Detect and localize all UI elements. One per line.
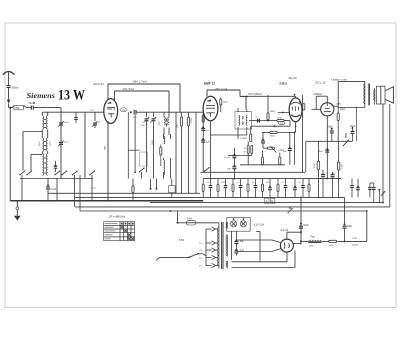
- svg-text:57W: 57W: [179, 239, 185, 242]
- svg-text:50µF: 50µF: [350, 126, 356, 128]
- coil L1a: [42, 116, 43, 129]
- svg-text:Lautspr. in mA: Lautspr. in mA: [332, 78, 348, 81]
- tube ECH11 U1: [104, 99, 118, 124]
- label ECH 11: [94, 82, 105, 86]
- label tap3: [199, 258, 202, 260]
- transformer T4 sec heater1: [226, 222, 228, 228]
- resistor R16 NTC: [317, 141, 320, 197]
- resistor R13: [202, 116, 204, 123]
- resistor R1 5000: [180, 112, 182, 193]
- svg-text:A Z 11: A Z 11: [279, 228, 289, 232]
- tube EM11 U3: [289, 98, 302, 122]
- potentiometer P2: [381, 191, 385, 196]
- svg-text:0,1: 0,1: [282, 182, 285, 184]
- wire plate U4: [334, 81, 365, 107]
- wire: [338, 107, 365, 142]
- wire: [134, 114, 136, 172]
- component row item 11: [284, 179, 288, 198]
- component row item 4: [232, 179, 234, 198]
- component row item 10: [277, 179, 279, 198]
- wire: [137, 111, 204, 113]
- wire speaker drop2: [389, 104, 391, 207]
- component row item 14: [308, 179, 310, 198]
- speaker LS1: [376, 86, 393, 104]
- capacitor C22: [321, 170, 325, 197]
- svg-text:100cm: 100cm: [11, 87, 18, 90]
- trimmer C3: [58, 121, 64, 127]
- svg-text:0,1MΩ: 0,1MΩ: [240, 138, 247, 140]
- wire: [306, 141, 353, 172]
- wire bus 172: [201, 171, 306, 173]
- coil L2a: [42, 138, 43, 151]
- wire: [79, 175, 81, 211]
- capacitor C5: [54, 161, 58, 172]
- wire: [231, 231, 233, 260]
- wire lamp return: [250, 224, 260, 262]
- capacitor C23: [331, 172, 335, 197]
- wire: [21, 175, 23, 201]
- label 1300: [313, 93, 322, 96]
- tube U2 internals: [206, 100, 215, 117]
- svg-text:2M: 2M: [252, 182, 255, 184]
- IF alignment table: [104, 222, 135, 241]
- label 240V: [340, 109, 346, 111]
- coil L2b: [46, 138, 47, 151]
- wire: [237, 108, 239, 139]
- title 13 W: [58, 88, 85, 104]
- svg-text:0,1: 0,1: [237, 182, 240, 184]
- terminal box E: [271, 198, 275, 203]
- svg-text:220: 220: [199, 266, 202, 268]
- antenna: [3, 72, 15, 86]
- capacitor C25: [372, 183, 376, 203]
- label row3: [237, 182, 240, 184]
- resistor R7 6340: [270, 131, 277, 137]
- tube U3 internals: [291, 101, 301, 117]
- resistor R18: [321, 240, 336, 247]
- label 57W: [179, 239, 185, 242]
- potentiometer P1 0.5M: [263, 146, 284, 152]
- resistor R11: [261, 150, 263, 164]
- svg-text:Fsp.: Fsp.: [311, 236, 316, 239]
- svg-text:5µF: 5µF: [227, 169, 231, 171]
- svg-text:20mA: 20mA: [352, 244, 358, 247]
- wire cathode U4: [326, 116, 328, 179]
- label row4: [252, 182, 255, 184]
- transformer T4 primary: [217, 228, 219, 269]
- transformer T4 sec heater2: [226, 261, 228, 269]
- transformer T4 sec HT: [226, 235, 228, 257]
- capacitor C-ant 100cm: [7, 86, 19, 90]
- coil T2 secondary: [246, 115, 247, 125]
- wire bus AVC: [48, 192, 200, 194]
- resistor R14: [303, 104, 305, 111]
- resistor R9: [247, 142, 249, 154]
- capacitor C2 50cm: [29, 102, 35, 110]
- label 2000 coil: [39, 141, 41, 146]
- mains hook: [157, 258, 160, 261]
- resistor R8 0.1M: [240, 126, 252, 141]
- wire screen loop U2: [207, 90, 246, 110]
- capacitor C16: [201, 126, 210, 132]
- label 12V 8mA: [123, 87, 135, 91]
- switch S1e: [72, 170, 78, 175]
- label 10cm trim2: [64, 142, 69, 144]
- svg-text:(1300Ω): (1300Ω): [313, 93, 322, 96]
- svg-text:8µF: 8µF: [240, 241, 245, 243]
- trimmer C4: [58, 141, 64, 147]
- wire: [20, 178, 93, 180]
- component row item 1: [209, 179, 213, 198]
- IF transformer T2 box: [235, 112, 252, 129]
- svg-text:ECH 11: ECH 11: [94, 82, 105, 86]
- wire screen loop inner: [114, 91, 169, 112]
- label ZF: [108, 215, 126, 219]
- label 3-30: [141, 125, 146, 127]
- wire column x302: [302, 95, 304, 173]
- trimmer C11: [150, 112, 156, 178]
- wire: [248, 154, 252, 165]
- wire: [56, 179, 58, 201]
- coil T2 primary: [238, 115, 239, 125]
- wire: [246, 110, 248, 113]
- svg-text:150: 150: [199, 258, 202, 260]
- arrow down: [7, 100, 11, 108]
- switch S5 mains: [160, 253, 206, 258]
- label tap1: [199, 243, 202, 245]
- wire osc extra v: [128, 112, 139, 178]
- svg-text:50µF: 50µF: [347, 226, 353, 228]
- svg-text:0,2M: 0,2M: [342, 164, 344, 169]
- transformer T3 core: [368, 84, 370, 106]
- coil T2 core: [242, 116, 244, 125]
- wire cathode U1: [107, 121, 109, 201]
- node: [47, 200, 49, 202]
- node: [130, 111, 132, 113]
- label 1700: [352, 238, 358, 246]
- label 180mA: [105, 145, 107, 150]
- wire HT to rect bottom: [236, 249, 281, 252]
- resistor R10: [244, 146, 253, 154]
- label 5000: [152, 139, 154, 144]
- wire: [42, 130, 47, 154]
- node pair: [150, 179, 158, 190]
- resistor R17: [337, 141, 340, 197]
- terminal box: [169, 179, 176, 198]
- lamp LA1: [231, 218, 237, 227]
- wire: [211, 130, 247, 135]
- label row1: [207, 182, 210, 184]
- resistor R6 1500: [277, 117, 290, 121]
- coil L3b: [46, 154, 47, 176]
- label R16: [314, 163, 316, 168]
- svg-text:0,1µF: 0,1µF: [51, 189, 58, 191]
- wire: [364, 81, 366, 107]
- label R2 1M: [191, 117, 193, 123]
- wire: [26, 107, 31, 109]
- label tap2: [199, 250, 202, 252]
- wire grid bus: [42, 111, 104, 113]
- tube U5 internals: [284, 242, 289, 248]
- fuse F1 0.8A: [178, 217, 196, 225]
- capacitor C17: [201, 138, 210, 144]
- wire: [8, 88, 10, 100]
- wire HT to rect top: [236, 240, 281, 243]
- svg-text:A: A: [266, 199, 268, 203]
- wire bus B2: [150, 202, 383, 204]
- tube AZ11 U5: [280, 239, 293, 252]
- wire: [74, 175, 76, 207]
- wire: [374, 88, 376, 105]
- switch S2: [139, 152, 148, 179]
- resistor R3: [132, 179, 134, 201]
- svg-text:1700: 1700: [352, 238, 358, 240]
- svg-text:6,3V 0,3A: 6,3V 0,3A: [254, 224, 265, 227]
- label 50u: [289, 78, 298, 80]
- capacitor C15: [227, 158, 236, 179]
- label R17b: [342, 164, 344, 169]
- trimmer C6: [92, 112, 98, 128]
- svg-text:TW: TW: [15, 106, 20, 110]
- resistor R5 3M: [267, 95, 275, 120]
- component row item 5: [239, 179, 243, 198]
- wire EM11 cathode drop: [295, 122, 297, 133]
- label 600m: [91, 188, 96, 190]
- capacitor C27 8uF: [234, 244, 244, 256]
- wire: [264, 120, 278, 122]
- switch S3: [204, 167, 210, 172]
- coil L4 osc b: [168, 112, 169, 135]
- component row item 3: [224, 179, 228, 198]
- capacitor C18 3uF: [283, 132, 292, 164]
- svg-text:50µ·4W: 50µ·4W: [289, 78, 298, 80]
- svg-text:180°: 180°: [105, 145, 107, 150]
- dial lamp box: [227, 218, 250, 232]
- wire EBF cathode: [210, 121, 212, 179]
- label trim3: [98, 122, 101, 124]
- wire plate loop outer: [108, 84, 180, 112]
- wire: [163, 172, 165, 179]
- label lautspr: [332, 78, 348, 81]
- coil L4 osc a: [164, 112, 165, 135]
- svg-text:Siemens: Siemens: [27, 91, 56, 100]
- trimmer on bus: [288, 207, 293, 213]
- wire bus B4: [80, 210, 367, 212]
- label EBF 11: [204, 81, 215, 85]
- capacitor C26 8uF: [234, 231, 244, 243]
- svg-text:10cm: 10cm: [64, 142, 69, 144]
- lamp LA2: [240, 218, 246, 227]
- capacitor C13 5nF: [261, 132, 265, 148]
- component row item 6: [247, 179, 249, 198]
- resistor R12: [279, 153, 281, 165]
- wire: [228, 154, 252, 156]
- label row7: [299, 182, 301, 184]
- wire column: [84, 112, 86, 178]
- coil core: [166, 119, 168, 127]
- wire: [287, 231, 302, 239]
- label 75V: [248, 93, 262, 96]
- component row item 0: [202, 179, 204, 198]
- component row item 9: [268, 179, 272, 198]
- switch S1b: [26, 170, 32, 175]
- wire speaker drop1: [382, 104, 384, 203]
- capacitor C19 30uF: [328, 126, 334, 141]
- wire: [31, 154, 42, 170]
- switch S1f: [89, 170, 95, 175]
- svg-text:110: 110: [199, 243, 202, 245]
- capacitor C29 50uF: [343, 197, 353, 242]
- tube EBF11 U2: [203, 96, 218, 120]
- wire: [289, 121, 291, 127]
- svg-text:5000: 5000: [222, 182, 226, 184]
- coil L6: [164, 160, 165, 175]
- component row item 8: [262, 179, 264, 198]
- wire rect heater2: [232, 251, 296, 268]
- wire: [91, 175, 93, 201]
- wire: [251, 125, 290, 127]
- junction dots: [107, 94, 384, 212]
- wire avc: [241, 96, 295, 98]
- label 28V 2.7mA: [133, 80, 147, 84]
- label tap4: [199, 266, 202, 268]
- svg-text:30µF: 30µF: [328, 126, 334, 128]
- svg-text:3MΩ: 3MΩ: [270, 111, 275, 113]
- svg-text:50cm: 50cm: [64, 122, 69, 124]
- transformer T3 primary: [364, 84, 366, 106]
- capacitor C20 50uF: [350, 126, 356, 141]
- transformer T3 secondary: [374, 90, 375, 103]
- component row item 7: [254, 179, 258, 198]
- wire: [370, 182, 374, 184]
- label gru: [91, 108, 95, 111]
- wire left drop: [9, 108, 11, 201]
- svg-text:50µF: 50µF: [303, 225, 309, 227]
- coil L3a: [42, 154, 43, 176]
- wire fuse feed: [177, 211, 179, 224]
- wire: [337, 211, 367, 241]
- capacitor C6b: [74, 112, 78, 123]
- label R1 5000: [177, 123, 179, 128]
- wire: [175, 112, 177, 193]
- wire bus B1: [75, 196, 345, 198]
- wire U2 left column: [202, 112, 204, 172]
- component row item 13: [301, 179, 305, 198]
- label row6: [282, 182, 285, 184]
- capacitor C21 5uF: [319, 148, 329, 153]
- wire: [33, 107, 61, 109]
- ground symbol: [14, 201, 21, 221]
- capacitor C24: [368, 183, 372, 197]
- wire: [164, 134, 171, 139]
- label 500: [159, 121, 161, 125]
- svg-text:4MΩ: 4MΩ: [337, 103, 342, 105]
- wire bus 178: [203, 178, 341, 180]
- label 50cm trim1: [64, 122, 69, 124]
- svg-text:0,8A: 0,8A: [187, 217, 192, 220]
- svg-text:0,1µF: 0,1µF: [225, 157, 231, 159]
- coil L5 osc a: [164, 136, 165, 144]
- wire grid loop U4: [312, 96, 328, 109]
- switch S1a: [19, 170, 25, 175]
- svg-text:ECL 11: ECL 11: [316, 80, 326, 84]
- resistor R osc: [160, 145, 162, 167]
- resistor R2 10000: [187, 112, 189, 193]
- resistor R4: [220, 98, 222, 113]
- svg-text:ZF = 468 kHz: ZF = 468 kHz: [108, 215, 126, 219]
- wire detector out: [247, 120, 261, 130]
- capacitor C28 50uF: [299, 223, 309, 229]
- field coil Fsp: [301, 236, 321, 248]
- tone switch S4: [343, 133, 349, 146]
- label R4 5000: [223, 102, 228, 104]
- wire: [196, 223, 219, 228]
- tube U4 internals: [324, 103, 334, 111]
- wire: [42, 112, 47, 115]
- wire: [23, 132, 42, 171]
- tube ECL11 U4: [321, 103, 334, 116]
- svg-text:125: 125: [199, 250, 202, 252]
- tube U1 internals: [107, 102, 115, 118]
- svg-text:E: E: [271, 199, 273, 203]
- svg-text:50: 50: [299, 182, 301, 184]
- node: [378, 189, 380, 203]
- label 26V 3mA: [215, 87, 228, 91]
- transformer T4 core: [222, 222, 223, 269]
- svg-text:1200: 1200: [121, 110, 125, 112]
- capacitor C14: [225, 148, 237, 159]
- label AZ 11: [279, 228, 289, 232]
- component row item 15: [350, 179, 354, 198]
- label 1200 oval: [120, 108, 127, 112]
- capacitor C7 0.1uF: [46, 179, 57, 201]
- wire: [293, 243, 301, 245]
- coil L1b: [46, 116, 47, 129]
- wire EM grid: [278, 112, 289, 114]
- label 1000 coil: [50, 141, 52, 146]
- component row item 16: [356, 179, 360, 198]
- label row5: [266, 182, 270, 184]
- capacitor C9 100: [131, 110, 138, 119]
- svg-text:28V, 2,7mA: 28V, 2,7mA: [133, 80, 147, 84]
- svg-text:600m: 600m: [91, 188, 96, 190]
- label row2: [222, 182, 226, 184]
- coil core ticks: [44, 120, 46, 174]
- svg-text:0,1M: 0,1M: [314, 163, 316, 168]
- svg-text:240V: 240V: [340, 109, 346, 111]
- svg-text:5µF: 5µF: [319, 151, 323, 153]
- wire: [195, 112, 197, 193]
- trimmer C10: [143, 112, 149, 172]
- resistor R15: [337, 108, 339, 142]
- wire B+ column: [300, 197, 302, 244]
- svg-text:13 W: 13 W: [58, 88, 85, 104]
- coil TW wave trap: [9, 105, 26, 110]
- wire ground bus: [10, 200, 203, 202]
- component row item 12: [293, 179, 297, 198]
- wire: [262, 131, 295, 133]
- wire: [164, 158, 171, 179]
- svg-text:EM11: EM11: [280, 81, 288, 85]
- title Siemens: [27, 91, 56, 100]
- switch S1d: [61, 170, 67, 175]
- label EM11: [280, 81, 288, 85]
- wire: [240, 164, 285, 166]
- wire column: [60, 108, 62, 179]
- wire em11 drop2: [294, 132, 296, 164]
- label 6.3V: [254, 224, 265, 227]
- svg-text:75V 0,85mA: 75V 0,85mA: [248, 93, 262, 96]
